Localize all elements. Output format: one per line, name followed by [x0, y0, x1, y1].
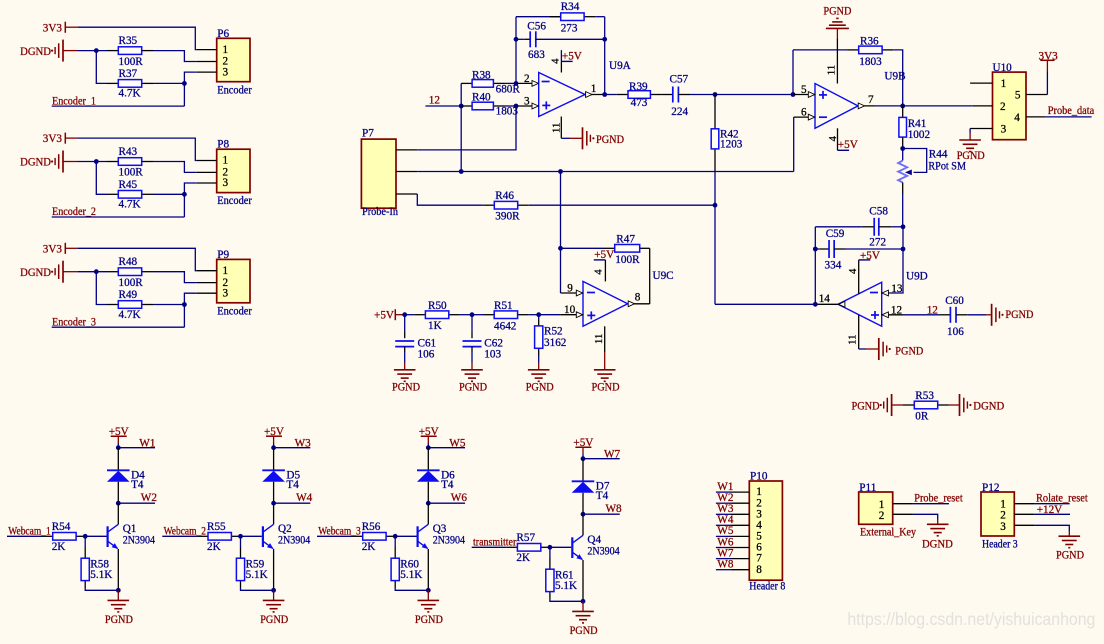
wire — [582, 493, 584, 514]
pin 11 (U9C) — [593, 326, 605, 352]
svg-text:C57: C57 — [670, 74, 689, 86]
svg-text:R51: R51 — [494, 300, 513, 312]
svg-text:Q2: Q2 — [278, 523, 292, 535]
svg-text:1: 1 — [591, 83, 597, 95]
wire — [184, 72, 196, 106]
resistor R52 — [535, 315, 567, 356]
junction — [470, 312, 475, 317]
net label Encoder_2 — [52, 206, 185, 218]
svg-text:+5V: +5V — [838, 139, 858, 151]
svg-text:PGND: PGND — [852, 401, 880, 413]
svg-text:DGND: DGND — [20, 267, 51, 279]
svg-text:PGND: PGND — [895, 346, 923, 358]
svg-text:U10: U10 — [993, 62, 1013, 74]
svg-text:1K: 1K — [428, 320, 442, 332]
wire — [505, 105, 517, 107]
wire P7 pin1 — [417, 106, 516, 150]
svg-text:R43: R43 — [119, 146, 138, 158]
svg-text:+5V: +5V — [594, 249, 614, 261]
power port +5V (U9C) — [592, 249, 614, 281]
svg-text:R40: R40 — [472, 91, 491, 103]
junction — [901, 224, 906, 229]
svg-text:5.1K: 5.1K — [90, 569, 112, 581]
wire — [96, 162, 107, 195]
wire — [395, 535, 416, 537]
svg-text:1: 1 — [223, 44, 229, 56]
junction — [602, 37, 607, 42]
junction — [548, 545, 553, 550]
svg-text:Probe_reset: Probe_reset — [914, 493, 963, 505]
wire P7 pin2 — [417, 171, 793, 173]
resistor R58 — [81, 536, 112, 588]
net label W6 — [428, 492, 467, 504]
svg-text:11: 11 — [551, 123, 563, 133]
wire — [273, 482, 275, 503]
net label W3 — [274, 437, 312, 449]
svg-text:C62: C62 — [484, 337, 503, 349]
net label W2 — [118, 492, 157, 504]
wire — [273, 448, 275, 471]
svg-text:2K: 2K — [516, 552, 530, 564]
svg-text:2N3904: 2N3904 — [433, 534, 466, 546]
net label W8 (P10) — [716, 559, 734, 571]
svg-text:Q4: Q4 — [587, 534, 601, 546]
connector P11 — [859, 482, 913, 524]
net label W1 (P10) — [716, 481, 734, 493]
connector P9 — [197, 249, 252, 318]
svg-text:R52: R52 — [544, 325, 563, 337]
net label Encoder_1 — [52, 95, 185, 107]
power ground PGND (top) — [823, 6, 851, 39]
svg-text:W2: W2 — [141, 492, 157, 504]
wire — [714, 205, 716, 304]
resistor R35 — [107, 35, 153, 68]
pin 4 — [550, 58, 562, 64]
pin 9 — [561, 283, 584, 296]
svg-text:3V3: 3V3 — [43, 133, 63, 145]
op-amp U9A — [539, 60, 631, 117]
op-amp U9B — [815, 71, 906, 129]
junction — [713, 92, 718, 97]
net label Probe_reset — [913, 493, 964, 505]
wire — [153, 51, 197, 62]
svg-text:5: 5 — [1015, 90, 1021, 102]
net label External_Key — [860, 527, 916, 539]
svg-text:P11: P11 — [859, 482, 876, 494]
transistor Q2 — [263, 523, 311, 549]
net label Webcam_2 — [162, 525, 206, 537]
svg-text:8: 8 — [635, 292, 641, 304]
net label W8 — [583, 503, 622, 515]
capacitor C60 — [939, 295, 967, 338]
junction output U9B — [900, 104, 905, 109]
wire — [78, 248, 197, 270]
svg-text:2N3904: 2N3904 — [123, 534, 156, 546]
net label W7 — [583, 448, 621, 460]
power ground PGND (Q3) — [415, 590, 443, 626]
junction — [182, 302, 187, 307]
wire — [241, 588, 274, 590]
resistor R41 — [899, 106, 930, 149]
wire — [395, 588, 428, 590]
svg-text:PGND: PGND — [957, 150, 985, 162]
junction — [901, 247, 906, 252]
junction — [271, 501, 276, 506]
net label Probe_data — [1045, 105, 1094, 117]
wire — [882, 227, 903, 293]
net label W6 (P10) — [716, 536, 734, 548]
svg-text:106: 106 — [947, 326, 964, 338]
wire — [550, 599, 583, 601]
wire — [78, 138, 197, 160]
connector P12 — [981, 482, 1034, 536]
svg-text:2N3904: 2N3904 — [587, 545, 620, 557]
junction — [900, 146, 905, 151]
transistor Q3 — [418, 523, 466, 549]
power ground PGND (P12) — [1034, 525, 1084, 561]
power ground PGND (C62) — [459, 352, 487, 393]
svg-text:3V3: 3V3 — [1039, 51, 1059, 63]
svg-text:transmitter: transmitter — [473, 536, 517, 548]
svg-text:PGND: PGND — [526, 381, 554, 393]
wire — [542, 38, 605, 40]
capacitor C61 — [395, 315, 436, 361]
svg-text:DGND: DGND — [922, 538, 953, 550]
svg-text:334: 334 — [825, 260, 842, 272]
power ground DGND (P9) — [20, 261, 78, 283]
resistor R40 — [461, 91, 518, 117]
svg-text:C56: C56 — [527, 21, 546, 33]
junction — [514, 37, 519, 42]
capacitor C59 — [815, 228, 846, 272]
svg-text:T4: T4 — [441, 479, 454, 491]
net label Rolate_reset — [1034, 493, 1088, 505]
svg-text:1203: 1203 — [720, 138, 743, 150]
resistor R60 — [391, 536, 422, 588]
potentiometer R44 — [898, 149, 966, 183]
svg-text:U9C: U9C — [653, 270, 674, 282]
power ground DGND (P11) — [913, 514, 953, 550]
svg-text:PGND: PGND — [459, 381, 487, 393]
wire — [460, 314, 472, 316]
svg-text:3: 3 — [524, 96, 530, 108]
wire — [529, 314, 539, 316]
svg-text:Rolate_reset: Rolate_reset — [1036, 493, 1089, 505]
junction — [271, 445, 276, 450]
power ground PGND (U9C) — [592, 352, 620, 393]
svg-text:W8: W8 — [717, 559, 734, 571]
diode D6 — [417, 470, 455, 492]
svg-text:P9: P9 — [217, 249, 229, 261]
power port 3V3 (P6) — [43, 22, 78, 35]
svg-text:PGND: PGND — [596, 134, 624, 146]
svg-text:R50: R50 — [428, 300, 447, 312]
svg-text:R47: R47 — [616, 234, 635, 246]
junction — [558, 169, 563, 174]
svg-text:C58: C58 — [869, 206, 888, 218]
capacitor C57 — [661, 74, 690, 118]
net label Encoder_3 — [52, 316, 185, 328]
pin 1 — [585, 83, 605, 97]
svg-text:PGND: PGND — [260, 614, 288, 626]
svg-text:5.1K: 5.1K — [555, 580, 577, 592]
pin 6 — [794, 107, 815, 120]
power ground PGND (Q2) — [260, 590, 288, 626]
svg-text:390R: 390R — [495, 211, 520, 223]
net label 12 (right) — [927, 304, 938, 316]
svg-text:U9A: U9A — [609, 60, 631, 72]
svg-text:Webcam_3: Webcam_3 — [318, 525, 361, 537]
net label +12V — [1034, 504, 1070, 516]
diode D4 — [107, 470, 145, 492]
junction — [238, 534, 243, 539]
svg-text:+5V: +5V — [562, 51, 582, 63]
power port +5V (Q4) — [573, 437, 593, 459]
svg-text:Encoder: Encoder — [217, 84, 252, 96]
svg-text:2K: 2K — [207, 541, 221, 553]
wire — [96, 272, 107, 305]
svg-text:273: 273 — [561, 22, 578, 34]
junction — [393, 534, 398, 539]
resistor R48 — [107, 256, 153, 289]
svg-text:C59: C59 — [826, 228, 845, 240]
capacitor C62 — [463, 315, 503, 361]
wire — [184, 293, 196, 327]
junction — [182, 192, 187, 197]
svg-text:1: 1 — [1001, 78, 1007, 90]
power port +5V (U9A) — [561, 50, 581, 72]
svg-text:R37: R37 — [119, 68, 138, 80]
diode D7 — [572, 481, 610, 503]
svg-text:R35: R35 — [119, 35, 138, 47]
power ground PGND (R53) — [852, 394, 904, 416]
net label Webcam_3 — [317, 525, 361, 537]
wire — [153, 304, 184, 306]
svg-text:P7: P7 — [362, 128, 374, 140]
pin 5 — [793, 84, 815, 97]
svg-text:5.1K: 5.1K — [400, 569, 422, 581]
svg-text:P8: P8 — [217, 139, 229, 151]
connector P10 — [732, 470, 786, 592]
svg-text:PGND: PGND — [392, 381, 420, 393]
wire — [184, 183, 196, 217]
svg-text:R46: R46 — [495, 190, 514, 202]
net label W7 (P10) — [716, 547, 734, 559]
wire — [78, 271, 107, 273]
svg-text:P6: P6 — [217, 28, 229, 40]
wire — [515, 17, 517, 84]
net label W4 — [274, 492, 313, 504]
svg-text:W3: W3 — [295, 437, 312, 449]
junction — [558, 246, 563, 251]
svg-text:C61: C61 — [418, 337, 437, 349]
svg-text:100R: 100R — [615, 254, 640, 266]
diode D5 — [262, 470, 300, 492]
svg-text:6: 6 — [801, 107, 807, 119]
wire — [241, 535, 262, 537]
wire — [582, 514, 584, 535]
svg-text:W4: W4 — [296, 492, 313, 504]
power ground PGND (C61) — [392, 352, 420, 393]
svg-text:3: 3 — [1000, 521, 1006, 533]
svg-text:3162: 3162 — [544, 337, 566, 349]
svg-text:12: 12 — [891, 304, 902, 316]
svg-text:PGND: PGND — [823, 6, 851, 18]
wire — [505, 82, 517, 84]
wire — [96, 51, 107, 84]
svg-text:R54: R54 — [52, 521, 71, 533]
svg-text:100R: 100R — [119, 56, 144, 68]
wire — [78, 27, 197, 49]
pin 11 — [551, 117, 563, 139]
wire — [793, 117, 795, 171]
svg-text:4: 4 — [550, 58, 562, 64]
wire — [582, 560, 584, 601]
resistor R38 — [461, 69, 520, 95]
resistor R51 — [472, 300, 529, 332]
junction — [116, 588, 121, 593]
wire — [904, 314, 940, 316]
svg-text:PGND: PGND — [1056, 550, 1084, 562]
junction — [94, 48, 99, 53]
resistor R59 — [236, 536, 267, 588]
power ground DGND (P8) — [20, 151, 78, 173]
junction — [426, 588, 431, 593]
svg-text:+12V: +12V — [1037, 504, 1063, 516]
transistor Q4 — [572, 534, 620, 560]
junction — [581, 599, 586, 604]
junction — [94, 159, 99, 164]
svg-text:Header 3: Header 3 — [982, 538, 1018, 550]
resistor R53 — [903, 390, 949, 423]
svg-text:R49: R49 — [119, 289, 138, 301]
wire — [85, 588, 118, 590]
wire — [814, 227, 816, 304]
pin 11 (U9B) — [826, 39, 838, 84]
svg-text:R57: R57 — [516, 532, 535, 544]
power ground PGND (U9D) — [859, 338, 924, 360]
net label W3 (P10) — [716, 503, 734, 515]
net label W4 (P10) — [716, 514, 734, 526]
svg-text:3: 3 — [1001, 124, 1007, 136]
net label W5 — [428, 437, 466, 449]
svg-text:0R: 0R — [915, 411, 929, 423]
power ground PGND (R52) — [526, 356, 554, 393]
power ground DGND (R53) — [949, 394, 1004, 416]
svg-text:4.7K: 4.7K — [119, 309, 141, 321]
power port 3V3 (U10) — [1039, 51, 1059, 95]
junction — [83, 534, 88, 539]
resistor R36 — [793, 36, 893, 68]
svg-text:R48: R48 — [119, 256, 138, 268]
power ground PGND (U10 pin3) — [957, 129, 985, 162]
svg-text:100R: 100R — [119, 277, 144, 289]
wire — [893, 50, 903, 106]
wire — [273, 549, 275, 590]
svg-text:DGND: DGND — [973, 401, 1004, 413]
resistor R47 — [561, 234, 650, 267]
wire — [875, 105, 973, 107]
svg-text:1002: 1002 — [908, 129, 930, 141]
wire — [902, 183, 904, 228]
svg-text:R38: R38 — [472, 69, 491, 81]
svg-text:Webcam_2: Webcam_2 — [164, 525, 206, 537]
svg-text:4.7K: 4.7K — [119, 199, 141, 211]
wire — [427, 549, 429, 590]
svg-text:R45: R45 — [119, 179, 138, 191]
junction output U9A — [602, 92, 607, 97]
junction pin5 node — [791, 92, 796, 97]
power port 3V3 (P8) — [43, 133, 78, 146]
resistor R61 — [546, 547, 577, 599]
svg-text:Header 8: Header 8 — [749, 580, 785, 592]
svg-text:14: 14 — [819, 293, 831, 305]
wire — [690, 94, 793, 96]
resistor R54 — [42, 521, 86, 553]
svg-text:R39: R39 — [629, 81, 648, 93]
wire — [529, 204, 715, 206]
net label W2 (P10) — [716, 492, 734, 504]
wire — [649, 248, 651, 304]
wire — [460, 83, 462, 171]
svg-text:103: 103 — [484, 349, 501, 361]
wire — [560, 172, 562, 294]
svg-text:8: 8 — [756, 564, 762, 576]
net label W5 (P10) — [716, 525, 734, 537]
svg-text:Encoder: Encoder — [217, 195, 252, 207]
svg-text:P12: P12 — [982, 482, 999, 494]
svg-text:11: 11 — [593, 334, 605, 344]
wire — [792, 50, 794, 95]
connector U10 — [970, 62, 1047, 140]
svg-text:RPot SM: RPot SM — [928, 160, 966, 172]
junction — [713, 203, 718, 208]
svg-text:W1: W1 — [139, 437, 155, 449]
power ground PGND (U9A) — [561, 127, 624, 149]
svg-text:4642: 4642 — [494, 321, 516, 333]
svg-text:4.7K: 4.7K — [119, 88, 141, 100]
junction pin2 node — [514, 81, 519, 86]
connector P7 — [361, 128, 417, 219]
pin 10 — [539, 304, 583, 317]
pin 2 — [516, 73, 539, 86]
svg-text:10: 10 — [564, 304, 576, 316]
resistor R50 — [405, 300, 460, 332]
resistor R37 — [107, 68, 153, 100]
svg-text:5: 5 — [801, 84, 807, 96]
svg-text:2K: 2K — [362, 541, 376, 553]
net label Webcam_1 — [7, 525, 51, 537]
net label W1 — [118, 437, 155, 449]
power port +5V (U9D) — [847, 250, 880, 294]
svg-text:100R: 100R — [119, 167, 144, 179]
svg-text:P10: P10 — [750, 470, 768, 482]
power port +5V (left) — [374, 309, 405, 321]
capacitor C56 — [516, 21, 546, 61]
wire — [117, 549, 119, 590]
net label 12 — [425, 94, 461, 106]
junction pin14 node — [813, 302, 818, 307]
wire — [604, 17, 606, 95]
junction — [581, 512, 586, 517]
pin 12 — [882, 304, 904, 317]
junction — [426, 501, 431, 506]
power ground PGND (Q1) — [105, 590, 133, 626]
svg-text:Probe_data: Probe_data — [1048, 105, 1094, 117]
svg-text:4: 4 — [847, 268, 859, 274]
svg-text:11: 11 — [826, 65, 838, 75]
svg-text:PGND: PGND — [592, 381, 620, 393]
